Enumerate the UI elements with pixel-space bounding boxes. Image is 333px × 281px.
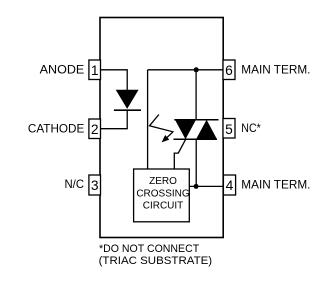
svg-text:NC*: NC* [241, 121, 261, 135]
pin 2 box [89, 119, 101, 139]
svg-text:ZERO: ZERO [149, 176, 177, 187]
triac gate wire [174, 139, 185, 169]
pin 6 box [223, 60, 235, 80]
svg-text:MAIN TERM.: MAIN TERM. [241, 63, 310, 77]
wire MT1 vertical [195, 139, 197, 186]
light arrow head [162, 135, 170, 142]
junction node B (bottom) [194, 184, 199, 189]
svg-text:N/C: N/C [65, 177, 85, 191]
svg-text:*DO NOT CONNECT: *DO NOT CONNECT [99, 243, 199, 255]
triac Q1 top terminal line [174, 119, 218, 121]
svg-text:6: 6 [225, 63, 233, 78]
light arrow zigzag [150, 115, 173, 141]
pin 4 box [223, 175, 235, 195]
triac Q1 left triangle [175, 120, 196, 139]
package outline U1 [100, 18, 223, 238]
triac Q1 bottom terminal line [174, 138, 218, 140]
svg-text:5: 5 [225, 122, 233, 137]
svg-text:2: 2 [91, 122, 99, 137]
triac Q1 right triangle [196, 120, 217, 139]
svg-text:CIRCUIT: CIRCUIT [143, 201, 184, 212]
svg-text:ANODE: ANODE [40, 63, 85, 77]
svg-text:4: 4 [226, 178, 234, 193]
pin 5 box [223, 119, 235, 139]
wire LED cathode to pin2 [101, 110, 128, 129]
wire top net to pin 6 [148, 69, 224, 71]
svg-text:CROSSING: CROSSING [136, 188, 190, 199]
wire pin1 to LED anode [101, 70, 128, 91]
wire left inner vertical to ZCC [147, 70, 149, 169]
pin 1 box [89, 60, 101, 80]
wire MT2 vertical [195, 70, 197, 120]
LED D1 cathode bar [114, 109, 141, 111]
svg-text:CATHODE: CATHODE [28, 122, 84, 136]
zero crossing circuit box [134, 169, 190, 222]
junction node A (top) [194, 67, 199, 72]
wire ZCC to pin 4 [189, 185, 223, 187]
svg-text:3: 3 [91, 178, 99, 193]
svg-text:(TRIAC SUBSTRATE): (TRIAC SUBSTRATE) [99, 255, 213, 267]
svg-text:MAIN TERM.: MAIN TERM. [241, 178, 310, 192]
LED D1 triangle [117, 90, 138, 108]
pin 3 box [89, 175, 101, 195]
svg-text:1: 1 [91, 63, 99, 78]
